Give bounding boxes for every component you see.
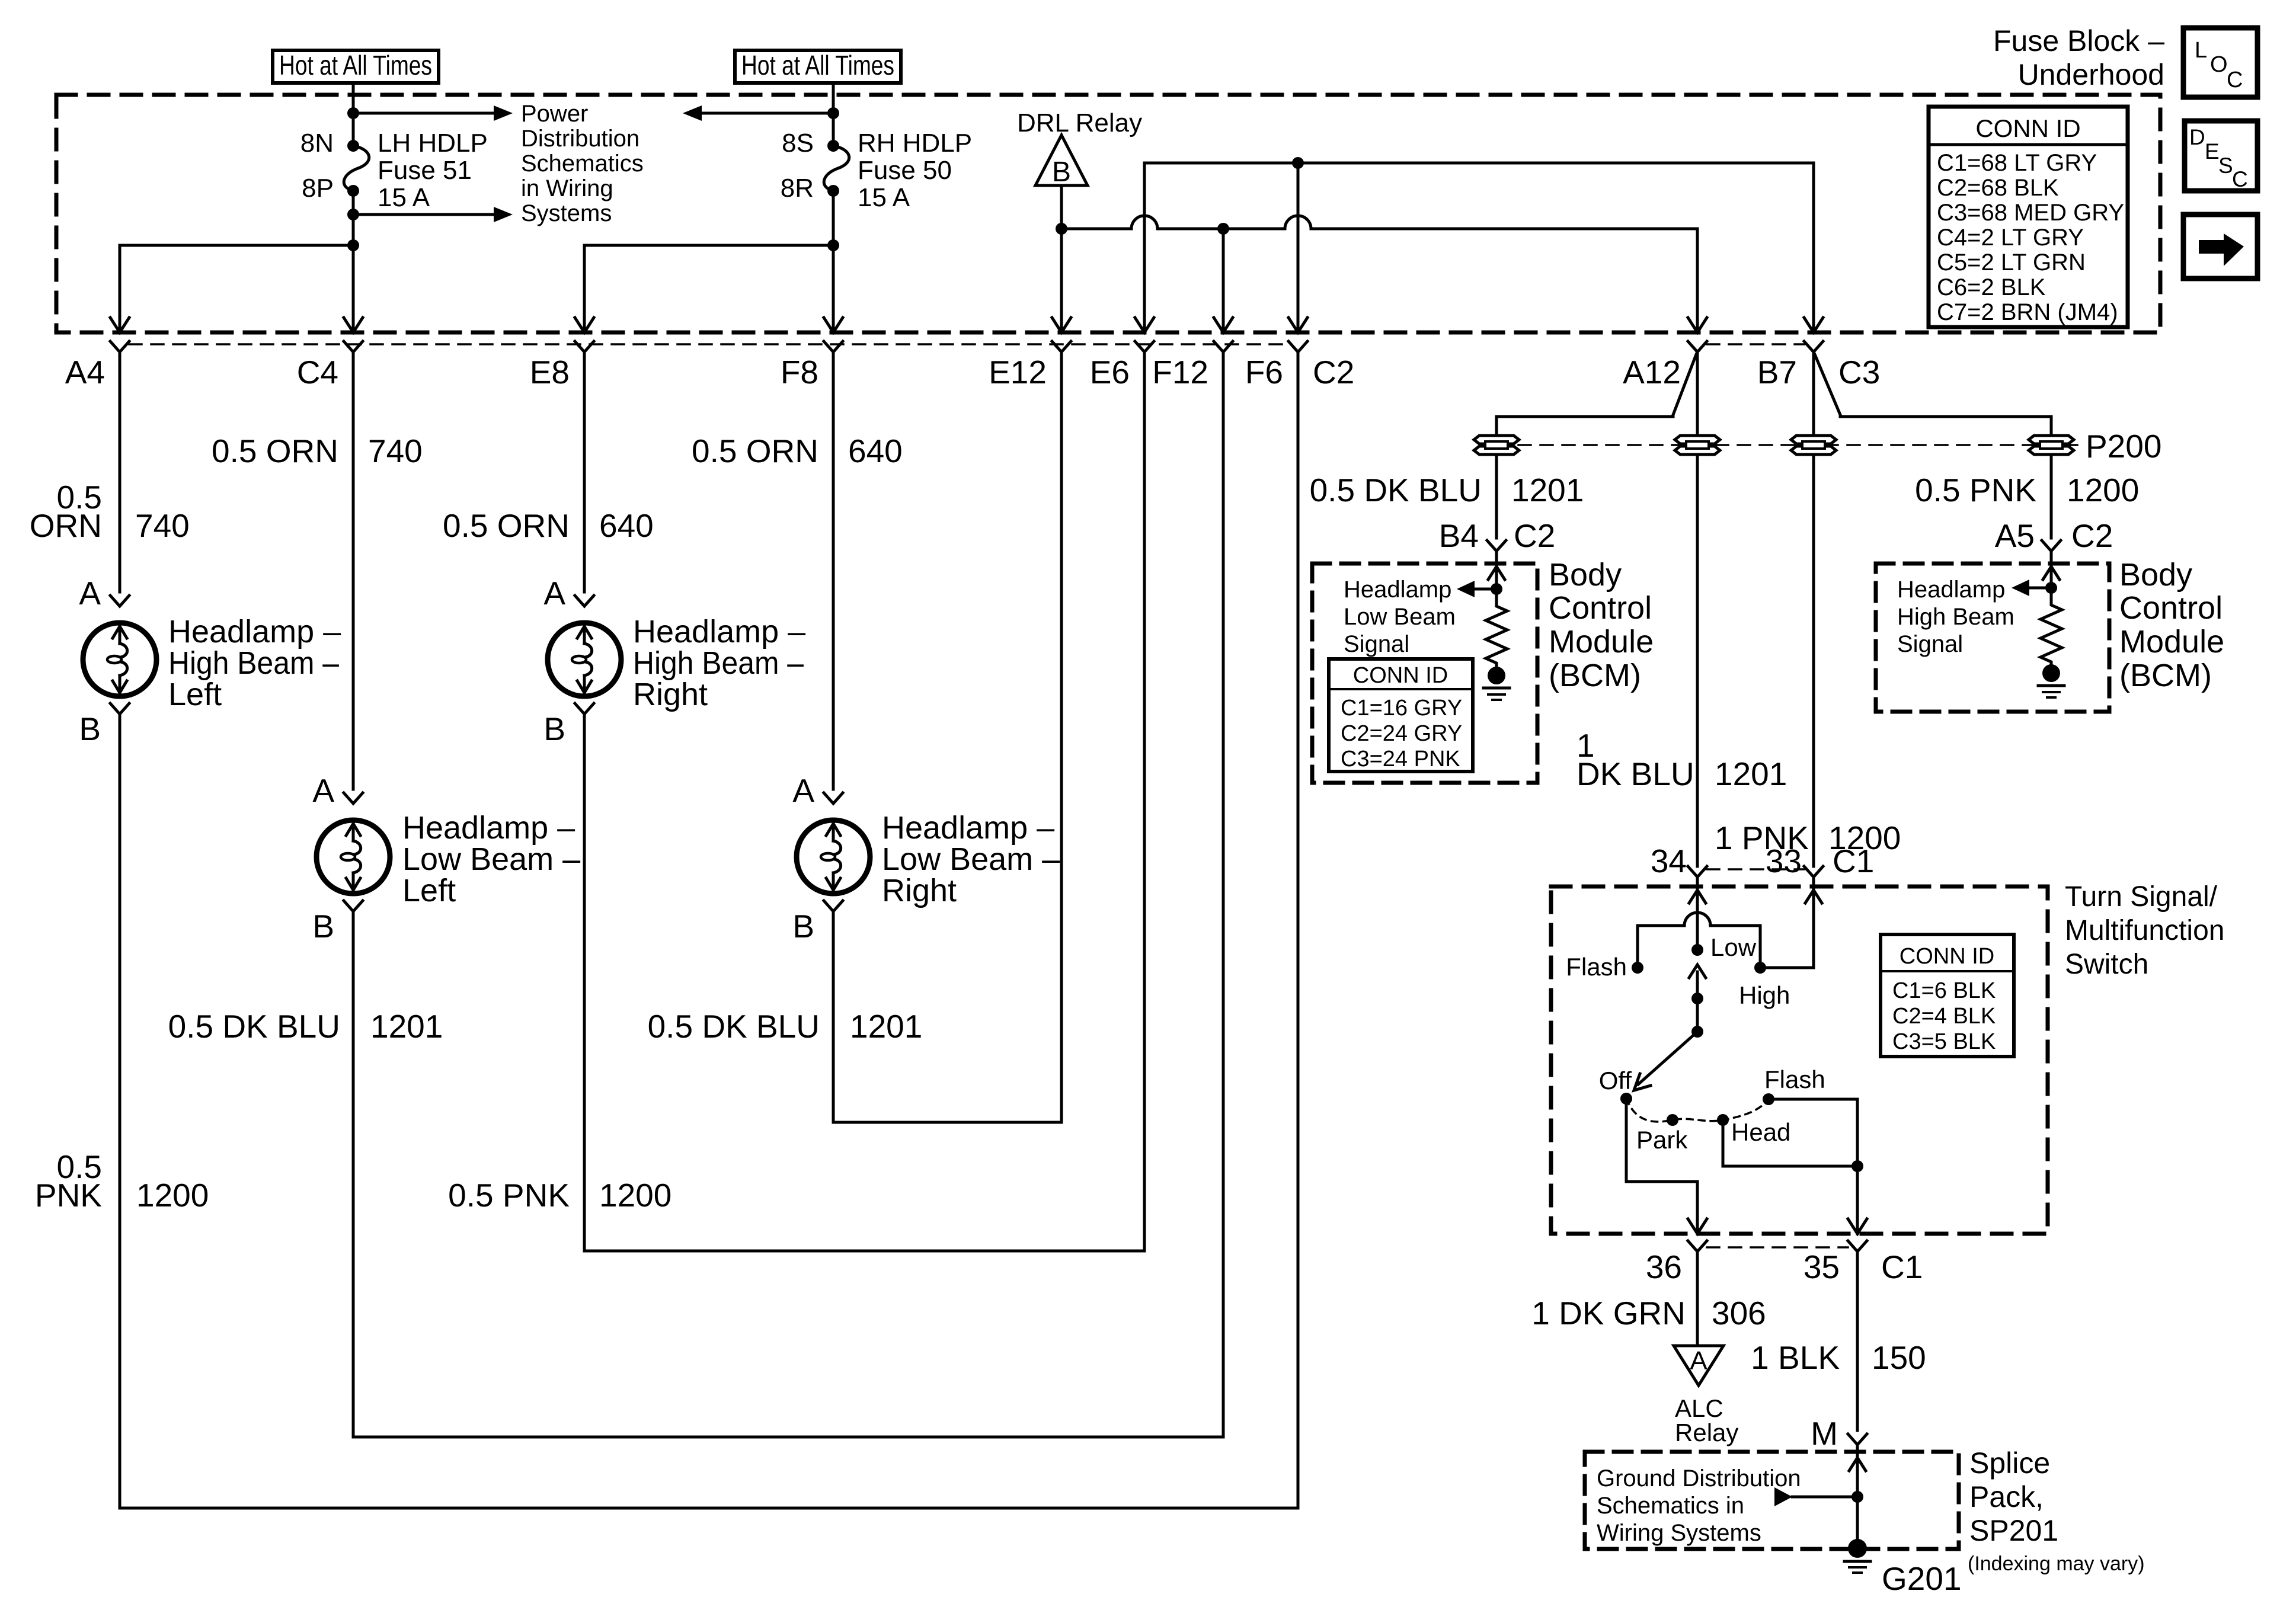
ground reference arrow bbox=[1774, 1487, 1857, 1506]
svg-text:Schematics: Schematics bbox=[521, 151, 644, 177]
svg-text:C7=2 BRN (JM4): C7=2 BRN (JM4) bbox=[1937, 299, 2118, 325]
svg-text:C1: C1 bbox=[1833, 843, 1874, 879]
label Body Control Module (BCM) left bbox=[1549, 557, 1654, 693]
svg-text:34: 34 bbox=[1651, 843, 1687, 879]
svg-text:C1=6 BLK: C1=6 BLK bbox=[1892, 978, 1996, 1003]
pin label 33 bbox=[1766, 843, 1802, 879]
svg-text:Signal: Signal bbox=[1897, 631, 1963, 657]
pin label A (lamp1) bbox=[79, 575, 101, 612]
label Fuse Block - Underhood bbox=[1993, 24, 2164, 91]
wire label 1 PNK 1200 (B7) bbox=[1715, 820, 1901, 856]
pin label A (lamp2) bbox=[312, 772, 334, 809]
wire C4 to left low-beam lamp bbox=[352, 352, 355, 789]
signal arrow (left) BCM left bbox=[1457, 581, 1496, 597]
headlamp switch wiper to Off bbox=[1634, 1032, 1697, 1090]
harness connector line P200 (thin dashed) bbox=[1496, 444, 2077, 446]
svg-text:8N: 8N bbox=[300, 129, 334, 158]
power label box "Hot at All Times" (left) bbox=[273, 50, 439, 83]
wire B7 drop to switch pin 33 bbox=[1812, 352, 1815, 866]
wire label 0.5 ORN 740 (A4) bbox=[30, 479, 190, 544]
wire into BCM left with up arrow bbox=[1488, 551, 1505, 595]
svg-text:15 A: 15 A bbox=[378, 183, 430, 212]
svg-text:Pack,: Pack, bbox=[1969, 1480, 2044, 1513]
splice pack box SP201 bbox=[1585, 1452, 1959, 1549]
connector chevron 33 bbox=[1804, 866, 1823, 877]
pin label M bbox=[1811, 1415, 1838, 1452]
wire C4 lamp return to F12 bbox=[353, 352, 1223, 1437]
connector chevron B4 bbox=[1487, 540, 1506, 551]
svg-text:35: 35 bbox=[1803, 1249, 1840, 1285]
svg-text:C6=2 BLK: C6=2 BLK bbox=[1937, 274, 2046, 300]
connector pin chevron at x=596 bbox=[344, 341, 363, 352]
svg-text:Head: Head bbox=[1731, 1118, 1790, 1146]
svg-text:Underhood: Underhood bbox=[2018, 58, 2164, 91]
label 8R bbox=[781, 174, 814, 203]
wire F6 vertical bbox=[1288, 163, 1307, 332]
svg-text:B: B bbox=[79, 710, 101, 747]
label Splice Pack SP201 bbox=[1969, 1446, 2058, 1547]
body control module (BCM) box left bbox=[1312, 564, 1537, 783]
ground G201 bbox=[1844, 1539, 1870, 1573]
svg-text:A: A bbox=[79, 575, 101, 612]
svg-text:1 BLK: 1 BLK bbox=[1751, 1339, 1840, 1376]
wire label 1 DK BLU 1201 (A12) bbox=[1576, 727, 1787, 792]
CONN ID table (fuse block) bbox=[1929, 107, 2128, 327]
wire label 0.5 DK BLU 1201 (BCM left) bbox=[1310, 472, 1584, 508]
svg-text:C3=24 PNK: C3=24 PNK bbox=[1341, 747, 1460, 772]
svg-text:Switch: Switch bbox=[2065, 949, 2148, 980]
svg-text:Headlamp –: Headlamp – bbox=[633, 614, 805, 649]
svg-text:740: 740 bbox=[368, 433, 423, 469]
DRL Relay label bbox=[1017, 108, 1142, 137]
svg-text:1200: 1200 bbox=[136, 1177, 209, 1214]
svg-text:High Beam: High Beam bbox=[1897, 604, 2014, 630]
svg-text:0.5 DK BLU: 0.5 DK BLU bbox=[168, 1008, 340, 1045]
inline connector P200 on B7 wire bbox=[1791, 436, 1836, 454]
svg-text:A: A bbox=[792, 772, 814, 809]
svg-text:Low Beam –: Low Beam – bbox=[402, 841, 580, 877]
svg-text:740: 740 bbox=[135, 507, 190, 544]
power label box "Hot at All Times" (right) bbox=[735, 50, 901, 83]
wire into BCM right with up arrow bbox=[2043, 551, 2060, 594]
svg-text:E8: E8 bbox=[530, 354, 570, 391]
ground (BCM right) bbox=[2038, 664, 2064, 697]
svg-text:8R: 8R bbox=[781, 174, 814, 203]
pin label F6 bbox=[1245, 354, 1283, 391]
label 8N bbox=[300, 129, 334, 158]
svg-text:E12: E12 bbox=[989, 354, 1047, 391]
note Power Distribution Schematics in Wiring Systems bbox=[521, 101, 644, 226]
wire E6 vertical bbox=[1135, 163, 1154, 332]
label P200 bbox=[2086, 428, 2161, 465]
svg-text:Fuse Block –: Fuse Block – bbox=[1993, 24, 2164, 57]
connector line C3 (thin dashed) bbox=[1707, 343, 1804, 345]
svg-text:Hot at All Times: Hot at All Times bbox=[279, 50, 432, 81]
svg-text:Headlamp –: Headlamp – bbox=[168, 614, 341, 649]
wire branch to A4 bbox=[110, 245, 353, 332]
label Turn Signal Multifunction Switch bbox=[2065, 881, 2224, 980]
label RH HDLP Fuse 50 15 A bbox=[858, 129, 972, 212]
svg-text:Flash: Flash bbox=[1764, 1065, 1825, 1093]
LOC icon bbox=[2183, 28, 2257, 97]
wire pin 34 into switch bbox=[1689, 877, 1706, 950]
svg-text:36: 36 bbox=[1646, 1249, 1682, 1285]
pin label E8 bbox=[530, 354, 570, 391]
svg-text:C3: C3 bbox=[1838, 354, 1880, 391]
connector pin chevron at x=1931 bbox=[1135, 341, 1154, 352]
pin label 34 bbox=[1651, 843, 1687, 879]
svg-text:Off: Off bbox=[1599, 1067, 1632, 1094]
reference arrow to Power Distribution (top) bbox=[353, 105, 513, 121]
svg-text:C3=68 MED GRY: C3=68 MED GRY bbox=[1937, 200, 2124, 226]
svg-text:0.5 PNK: 0.5 PNK bbox=[448, 1177, 570, 1214]
svg-text:C2=68 BLK: C2=68 BLK bbox=[1937, 175, 2059, 201]
svg-text:C2: C2 bbox=[2071, 517, 2113, 554]
svg-text:CONN ID: CONN ID bbox=[1353, 663, 1448, 688]
wire 36 to ALC relay bbox=[1696, 1251, 1699, 1345]
svg-text:1201: 1201 bbox=[1715, 756, 1787, 792]
svg-text:Schematics in: Schematics in bbox=[1597, 1493, 1744, 1519]
svg-text:C1=16 GRY: C1=16 GRY bbox=[1341, 696, 1462, 721]
svg-text:150: 150 bbox=[1872, 1339, 1926, 1376]
wire net line A (E6/F6 to B7) bbox=[1144, 157, 1823, 332]
connector label C3 bbox=[1838, 354, 1880, 391]
svg-text:8S: 8S bbox=[782, 129, 814, 158]
svg-text:Systems: Systems bbox=[521, 200, 612, 226]
wire E8 lamp return to E6 bbox=[584, 352, 1144, 1251]
connector pin chevron at x=202 bbox=[110, 341, 129, 352]
svg-text:1 DK GRN: 1 DK GRN bbox=[1531, 1295, 1686, 1331]
contact High bbox=[1754, 962, 1766, 974]
pin label B (lamp1) bbox=[79, 710, 101, 747]
svg-text:CONN ID: CONN ID bbox=[1900, 944, 1994, 969]
svg-text:A: A bbox=[543, 575, 565, 612]
svg-text:C4=2 LT GRY: C4=2 LT GRY bbox=[1937, 225, 2084, 251]
connector pin chevron at x=2190 bbox=[1288, 341, 1307, 352]
connector line (thin dashed) at switch bottom bbox=[1707, 1246, 1848, 1249]
svg-text:640: 640 bbox=[599, 507, 654, 544]
svg-text:Right: Right bbox=[633, 677, 708, 712]
svg-text:C2: C2 bbox=[1313, 354, 1354, 391]
CONN ID table (switch) bbox=[1881, 934, 2014, 1057]
svg-text:1201: 1201 bbox=[1511, 472, 1584, 508]
contact Off bbox=[1620, 1093, 1632, 1105]
pin label F12 bbox=[1152, 354, 1208, 391]
wire DRL relay to E12 bbox=[1052, 185, 1071, 332]
svg-text:B: B bbox=[792, 908, 814, 945]
svg-text:C2: C2 bbox=[1514, 517, 1555, 554]
DESC icon bbox=[2185, 121, 2257, 191]
wire label 0.5 ORN 640 (F8) bbox=[692, 433, 903, 469]
svg-text:Fuse 50: Fuse 50 bbox=[858, 156, 952, 185]
svg-text:RH HDLP: RH HDLP bbox=[858, 129, 972, 158]
pin label F8 bbox=[781, 354, 818, 391]
contact Flash (dimmer) bbox=[1632, 962, 1643, 974]
svg-text:C3=5 BLK: C3=5 BLK bbox=[1892, 1029, 1996, 1054]
svg-text:E: E bbox=[2205, 139, 2220, 164]
svg-text:Power: Power bbox=[521, 101, 588, 127]
wire from right Hot at All Times to fuse 50 bbox=[827, 83, 839, 146]
pin label B (lamp3) bbox=[543, 710, 565, 747]
svg-text:C5=2 LT GRN: C5=2 LT GRN bbox=[1937, 249, 2086, 276]
inline connector P200 on BCM-left wire bbox=[1474, 436, 1519, 454]
wire label 0.5 PNK 1200 (BCM right) bbox=[1915, 472, 2139, 508]
svg-text:DRL Relay: DRL Relay bbox=[1017, 108, 1142, 137]
reference arrow to Power Distribution (bottom) bbox=[353, 207, 513, 222]
ground (BCM left) bbox=[1483, 667, 1510, 700]
svg-text:C1=68 LT GRY: C1=68 LT GRY bbox=[1937, 150, 2097, 176]
wire A4 lamp return to F6 bbox=[120, 352, 1298, 1508]
svg-text:C1: C1 bbox=[1881, 1249, 1923, 1285]
pin label B4 bbox=[1439, 517, 1479, 554]
wire from left Hot at All Times to fuse 51 bbox=[347, 83, 359, 146]
DRL relay triangle B bbox=[1035, 135, 1088, 188]
connector label C1 (bottom) bbox=[1881, 1249, 1923, 1285]
wire into splice pack bbox=[1849, 1445, 1866, 1548]
label Headlamp Low Beam Left bbox=[402, 810, 580, 908]
label 8P bbox=[302, 174, 334, 203]
svg-text:0.5 PNK: 0.5 PNK bbox=[1915, 472, 2036, 508]
svg-text:1200: 1200 bbox=[599, 1177, 671, 1214]
connector label C2 bbox=[1313, 354, 1354, 391]
label Headlamp Low Beam Signal bbox=[1344, 577, 1456, 657]
body control module (BCM) box right bbox=[1876, 564, 2109, 712]
label Park bbox=[1636, 1126, 1688, 1154]
connector chevron M bbox=[1848, 1434, 1867, 1445]
pin label A (lamp4) bbox=[792, 772, 814, 809]
connector line (thin dashed) at switch top bbox=[1707, 868, 1804, 870]
contact Park bbox=[1667, 1114, 1678, 1126]
svg-text:CONN ID: CONN ID bbox=[1975, 114, 2080, 142]
pin label E6 bbox=[1090, 354, 1130, 391]
svg-text:B: B bbox=[543, 710, 565, 747]
pin label C4 bbox=[297, 354, 338, 391]
svg-text:0.5 DK BLU: 0.5 DK BLU bbox=[648, 1008, 820, 1045]
wire 35 to splice pack bbox=[1856, 1251, 1859, 1430]
svg-text:Control: Control bbox=[2119, 590, 2223, 626]
inline connector P200 on A12 wire bbox=[1675, 436, 1720, 454]
connector label C1 (top) bbox=[1833, 843, 1874, 879]
wire branch to E8 bbox=[575, 245, 833, 332]
wire A12 drop to switch pin 34 bbox=[1696, 352, 1699, 866]
svg-text:L: L bbox=[2195, 38, 2207, 63]
label Flash (headlamp) bbox=[1764, 1065, 1825, 1093]
label ALC Relay bbox=[1675, 1394, 1738, 1446]
pin label E12 bbox=[989, 354, 1047, 391]
wire label 0.5 DK BLU 1201 (F8 below lamp) bbox=[648, 1008, 923, 1045]
svg-text:Module: Module bbox=[1549, 624, 1654, 660]
pin label A (lamp3) bbox=[543, 575, 565, 612]
wire label 0.5 DK BLU 1201 (C4 below lamp) bbox=[168, 1008, 443, 1045]
fuse 51 (LH HDLP 15 A) bbox=[344, 140, 369, 197]
svg-text:0.5 ORN: 0.5 ORN bbox=[212, 433, 338, 469]
svg-text:High Beam –: High Beam – bbox=[168, 645, 339, 681]
connector pin chevron at x=986 bbox=[575, 341, 594, 352]
pin label 35 bbox=[1803, 1249, 1840, 1285]
svg-text:C2=4 BLK: C2=4 BLK bbox=[1892, 1004, 1996, 1029]
wire label 0.5 PNK 1200 (E8) bbox=[448, 1177, 671, 1214]
svg-text:O: O bbox=[2210, 52, 2228, 77]
headlamp high beam right bbox=[548, 596, 621, 714]
label Low bbox=[1710, 933, 1757, 961]
svg-text:G201: G201 bbox=[1882, 1560, 1962, 1597]
svg-text:Headlamp –: Headlamp – bbox=[882, 810, 1054, 846]
svg-text:8P: 8P bbox=[302, 174, 334, 203]
connector pin chevron at x=2064 bbox=[1214, 341, 1233, 352]
label G201 bbox=[1882, 1560, 1962, 1597]
connector pin chevron A12 bbox=[1688, 341, 1707, 352]
wire net line B (E12/F12 to A12) bbox=[1061, 216, 1707, 332]
connector label C2 (BCM right) bbox=[2071, 517, 2113, 554]
svg-text:Turn Signal/: Turn Signal/ bbox=[2065, 881, 2218, 913]
svg-text:Module: Module bbox=[2119, 624, 2224, 660]
connector label C2 (BCM left) bbox=[1514, 517, 1555, 554]
wire E8 to right high-beam lamp bbox=[583, 352, 586, 592]
forward arrow icon bbox=[2183, 215, 2257, 279]
svg-text:C2=24 GRY: C2=24 GRY bbox=[1341, 721, 1462, 746]
label Headlamp High Beam Signal bbox=[1897, 577, 2014, 657]
svg-text:Flash: Flash bbox=[1566, 953, 1627, 981]
wire B7 branch to BCM high beam input bbox=[1815, 354, 2051, 538]
svg-text:Headlamp: Headlamp bbox=[1344, 577, 1451, 603]
connector pin chevron at x=1406 bbox=[824, 341, 843, 352]
connector pin chevron B7 bbox=[1804, 341, 1823, 352]
label Ground Distribution Schematics in Wiring Systems bbox=[1597, 1465, 1801, 1546]
label LH HDLP Fuse 51 15 A bbox=[378, 129, 488, 212]
svg-text:Low: Low bbox=[1710, 933, 1757, 961]
svg-text:B: B bbox=[312, 908, 334, 945]
svg-text:F6: F6 bbox=[1245, 354, 1283, 391]
label Body Control Module (BCM) right bbox=[2119, 557, 2224, 693]
pin label A12 bbox=[1623, 354, 1681, 391]
inline connector P200 on BCM-right wire bbox=[2029, 436, 2074, 454]
wire A12 branch to BCM low beam input bbox=[1496, 354, 1696, 538]
svg-text:640: 640 bbox=[848, 433, 903, 469]
svg-text:DK BLU: DK BLU bbox=[1576, 756, 1694, 792]
svg-text:E6: E6 bbox=[1090, 354, 1130, 391]
svg-text:C4: C4 bbox=[297, 354, 338, 391]
pin label B (lamp4) bbox=[792, 908, 814, 945]
contact Low bbox=[1691, 944, 1703, 956]
label Head bbox=[1731, 1118, 1790, 1146]
svg-text:(BCM): (BCM) bbox=[1549, 658, 1641, 693]
connector chevron 34 bbox=[1688, 866, 1707, 877]
CONN ID table (BCM left) bbox=[1329, 659, 1473, 772]
wire Head to junction bbox=[1723, 1120, 1857, 1166]
svg-text:B: B bbox=[1052, 156, 1071, 188]
svg-text:Body: Body bbox=[2119, 557, 2192, 593]
connector chevron 36 bbox=[1688, 1241, 1707, 1251]
svg-text:Signal: Signal bbox=[1344, 631, 1409, 657]
svg-text:Left: Left bbox=[168, 677, 222, 712]
label Headlamp High Beam Right bbox=[633, 614, 805, 712]
ALC relay triangle A bbox=[1674, 1346, 1723, 1385]
wire High to pin 33 bbox=[1760, 877, 1822, 968]
svg-text:B7: B7 bbox=[1757, 354, 1797, 391]
label Off bbox=[1599, 1067, 1632, 1094]
svg-text:SP201: SP201 bbox=[1969, 1514, 2058, 1547]
wire A4 to left high-beam lamp bbox=[119, 352, 121, 592]
wire label 1 BLK 150 bbox=[1751, 1339, 1926, 1376]
svg-text:(Indexing may vary): (Indexing may vary) bbox=[1968, 1553, 2145, 1575]
svg-text:A: A bbox=[312, 772, 334, 809]
headlamp low beam left bbox=[316, 793, 390, 911]
switch travel arc (dashed) bbox=[1626, 1099, 1769, 1122]
wire label 0.5 ORN 640 (E8) bbox=[443, 507, 654, 544]
svg-text:D: D bbox=[2189, 125, 2205, 149]
svg-text:1201: 1201 bbox=[370, 1008, 443, 1045]
contact Head bbox=[1717, 1114, 1729, 1126]
note Indexing may vary bbox=[1968, 1553, 2145, 1575]
svg-text:Headlamp: Headlamp bbox=[1897, 577, 2005, 603]
svg-text:A5: A5 bbox=[1995, 517, 2035, 554]
pin label 36 bbox=[1646, 1249, 1682, 1285]
svg-text:Control: Control bbox=[1549, 590, 1652, 626]
fuse block underhood enclosure bbox=[56, 95, 2160, 332]
svg-text:Relay: Relay bbox=[1675, 1419, 1738, 1446]
svg-text:LH HDLP: LH HDLP bbox=[378, 129, 488, 158]
svg-text:A: A bbox=[1690, 1346, 1707, 1375]
svg-text:B4: B4 bbox=[1439, 517, 1479, 554]
svg-text:0.5 ORN: 0.5 ORN bbox=[692, 433, 818, 469]
pin label B (lamp2) bbox=[312, 908, 334, 945]
svg-text:ORN: ORN bbox=[30, 507, 102, 544]
wire label 0.5 PNK 1200 (A4) bbox=[35, 1148, 209, 1214]
pin label A5 bbox=[1995, 517, 2035, 554]
label 8S bbox=[782, 129, 814, 158]
svg-text:F8: F8 bbox=[781, 354, 818, 391]
svg-text:Low Beam: Low Beam bbox=[1344, 604, 1456, 630]
svg-text:S: S bbox=[2218, 153, 2233, 178]
signal arrow (left) BCM right bbox=[2012, 580, 2051, 596]
connector pin chevron at x=1791 bbox=[1052, 341, 1071, 352]
resistor (BCM right) bbox=[2041, 588, 2062, 665]
svg-text:Ground Distribution: Ground Distribution bbox=[1597, 1465, 1801, 1491]
resistor (BCM left) bbox=[1486, 589, 1507, 667]
wire label 0.5 ORN 740 (C4) bbox=[212, 433, 423, 469]
label Headlamp Low Beam Right bbox=[882, 810, 1060, 908]
wire Off to pin 36 bbox=[1626, 1099, 1707, 1234]
fuse 50 (RH HDLP 15 A) bbox=[824, 140, 849, 197]
svg-text:15 A: 15 A bbox=[858, 183, 910, 212]
svg-text:Hot at All Times: Hot at All Times bbox=[741, 50, 894, 81]
svg-text:ALC: ALC bbox=[1675, 1394, 1723, 1422]
svg-text:Headlamp –: Headlamp – bbox=[402, 810, 575, 846]
contact Flash (headlamp) bbox=[1763, 1093, 1774, 1105]
svg-text:High Beam –: High Beam – bbox=[633, 645, 804, 681]
svg-text:in Wiring: in Wiring bbox=[521, 175, 613, 201]
svg-text:M: M bbox=[1811, 1415, 1838, 1452]
svg-text:C: C bbox=[2232, 167, 2248, 191]
headlamp low beam right bbox=[797, 793, 870, 911]
svg-text:Body: Body bbox=[1549, 557, 1622, 593]
dimmer wiper arm bbox=[1689, 965, 1706, 1038]
svg-text:Wiring Systems: Wiring Systems bbox=[1597, 1520, 1761, 1546]
connector chevron 35 bbox=[1848, 1241, 1867, 1251]
svg-text:Right: Right bbox=[882, 873, 957, 908]
svg-text:P200: P200 bbox=[2086, 428, 2161, 465]
svg-text:Park: Park bbox=[1636, 1126, 1688, 1154]
svg-text:Multifunction: Multifunction bbox=[2065, 915, 2224, 946]
label High bbox=[1739, 981, 1790, 1009]
headlamp high beam left bbox=[83, 596, 156, 714]
turn signal / multifunction switch box bbox=[1551, 886, 2048, 1234]
pin label A4 bbox=[65, 354, 105, 391]
svg-text:306: 306 bbox=[1712, 1295, 1766, 1331]
svg-text:A12: A12 bbox=[1623, 354, 1681, 391]
connector chevron A5 bbox=[2042, 540, 2061, 551]
svg-text:Left: Left bbox=[402, 873, 456, 908]
